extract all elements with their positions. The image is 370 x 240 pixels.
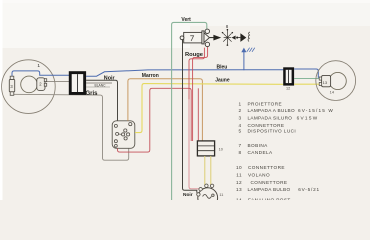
svg-text:12: 12 (286, 87, 290, 91)
wire: marron from switch top to right drop into connector 10 (128, 79, 202, 141)
connector C12 (283, 67, 294, 90)
svg-text:Noir: Noir (183, 192, 193, 198)
wire: blue loop from siluro lamp over bulb to connector 4 (12, 71, 70, 77)
wire: noir from connector 4 down to switch top (86, 80, 117, 121)
wire: blue main harness to connector 12 (86, 70, 283, 77)
svg-text:FANALINO POST.: FANALINO POST. (248, 197, 292, 200)
svg-text:6V15W: 6V15W (297, 115, 319, 120)
wires: tan pair from connector 10 down to volano (204, 156, 206, 185)
legend list (236, 101, 334, 202)
svg-text:VOLANO: VOLANO (248, 172, 270, 177)
connector C4 (69, 71, 86, 95)
wire: jaune from switch right side to connector 12 (135, 84, 283, 133)
svg-text:PROIETTORE: PROIETTORE (248, 101, 283, 106)
svg-text:6V-5/21: 6V-5/21 (298, 187, 320, 192)
svg-text:14: 14 (236, 197, 242, 200)
wire green to tail bulb (294, 77, 319, 79)
svg-text:Noir: Noir (104, 75, 116, 81)
wires: blue, green, yellow from connector 12 to tail bulb (294, 69, 319, 77)
svg-text:LAMPADA BULBO: LAMPADA BULBO (248, 187, 291, 192)
blue ground arrow with hatching (241, 48, 255, 71)
flywheel magneto (volano 11) (197, 184, 218, 208)
svg-text:LAMPADA SILURO: LAMPADA SILURO (248, 115, 293, 120)
bulb socket with label 2 (37, 78, 47, 91)
siluro lamp (lampada siluro 3) (9, 76, 14, 95)
wire: noir from coil down to volano (183, 40, 197, 193)
wire: vert loop from coil top down whole page (172, 22, 207, 200)
svg-text:1: 1 (238, 101, 241, 106)
wire yellow to tail bulb (294, 83, 319, 85)
headlight shell circle (proiettore 1) (2, 60, 56, 114)
svg-text:BOBINA: BOBINA (248, 143, 269, 148)
svg-text:8: 8 (238, 150, 241, 155)
connector C10 (197, 141, 222, 156)
svg-text:5: 5 (238, 128, 241, 133)
wire: gris long run from siluro bottom under connector then loop to switch bottom (12, 94, 129, 160)
svg-text:Vert: Vert (181, 17, 191, 23)
svg-text:BLANC: BLANC (95, 83, 107, 87)
svg-text:LAMPADA A BULBO: LAMPADA A BULBO (248, 108, 295, 113)
tail bulb circle (329, 72, 346, 89)
svg-text:11: 11 (219, 193, 223, 197)
svg-text:DISPOSITIVO LUCI: DISPOSITIVO LUCI (248, 128, 297, 133)
svg-text:CONNETTORE: CONNETTORE (248, 165, 285, 170)
label 1 with tick (37, 63, 40, 69)
svg-text:CONNETTORE: CONNETTORE (251, 180, 288, 185)
wire: red tee down to connector 10 (197, 88, 199, 141)
tail bulb socket (lampada 13) (319, 75, 330, 86)
svg-text:12: 12 (236, 180, 242, 185)
svg-text:13: 13 (236, 187, 242, 192)
ignition coil (bobina 7) (180, 29, 209, 47)
svg-text:CANDELA: CANDELA (248, 150, 274, 155)
tail light shell (fanalino 14) (316, 61, 356, 101)
wire: rouge A from coil bottom terminal to connector 10 (193, 47, 208, 141)
svg-text:13: 13 (323, 80, 328, 85)
svg-text:14: 14 (330, 90, 335, 95)
svg-text:2: 2 (238, 108, 241, 113)
wire: rouge loop from switch bottom up to red bus then down to connector 10 (118, 88, 192, 152)
light switch (dispositivo luci 5) (112, 121, 135, 149)
wire: blanc short (86, 82, 112, 84)
svg-text:11: 11 (236, 172, 242, 177)
svg-text:6V-15/15 W: 6V-15/15 W (298, 108, 334, 113)
svg-text:Bleu: Bleu (217, 65, 228, 71)
svg-text:Rouge: Rouge (185, 52, 204, 58)
svg-text:Gris: Gris (86, 91, 99, 97)
svg-text:3: 3 (238, 115, 241, 120)
svg-text:Marron: Marron (142, 73, 159, 79)
svg-text:10: 10 (219, 147, 223, 151)
spark plug spark symbol (candela 8) (222, 29, 233, 46)
svg-text:10: 10 (236, 165, 242, 170)
HT lead arrow to spark plug (210, 35, 222, 41)
headlight bulb (lampada 2) (21, 76, 38, 93)
svg-text:7: 7 (238, 143, 241, 148)
wire: grey from bulb socket to connector 4 (46, 81, 70, 83)
plug cap arrows and suppressor squiggle (232, 32, 250, 42)
svg-text:Jaune: Jaune (215, 78, 230, 84)
svg-text:1: 1 (37, 63, 40, 69)
wire: rouge B from coil to volano (189, 48, 204, 100)
